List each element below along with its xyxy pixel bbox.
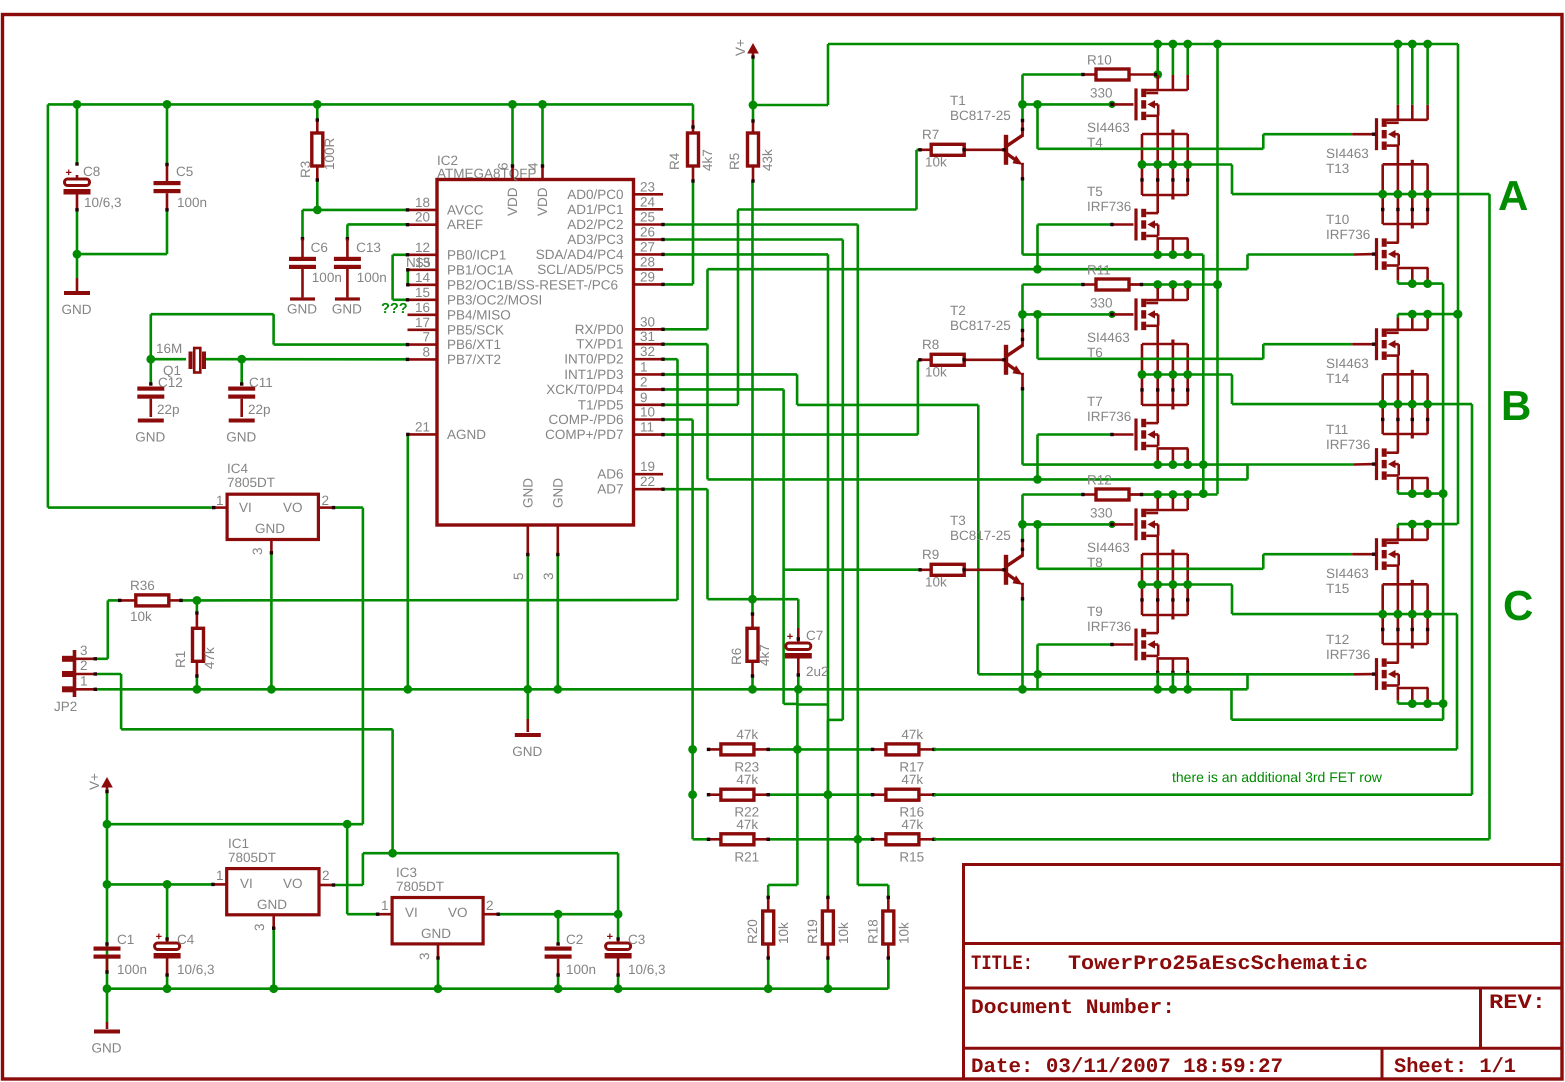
svg-text:C3: C3	[628, 932, 645, 947]
svg-text:4k7: 4k7	[757, 644, 772, 666]
svg-text:SI4463: SI4463	[1326, 566, 1369, 581]
svg-text:C: C	[1503, 582, 1533, 629]
svg-text:18: 18	[415, 195, 430, 210]
svg-text:3: 3	[250, 547, 265, 555]
svg-text:T1/PD5: T1/PD5	[578, 397, 624, 412]
svg-text:R6: R6	[729, 648, 744, 665]
svg-text:GND: GND	[226, 430, 256, 445]
svg-text:T2: T2	[950, 303, 966, 318]
svg-text:IRF736: IRF736	[1326, 227, 1370, 242]
svg-text:16: 16	[415, 300, 430, 315]
svg-text:10k: 10k	[925, 365, 947, 380]
svg-text:AD0/PC0: AD0/PC0	[567, 187, 623, 202]
svg-text:R9: R9	[922, 547, 939, 562]
svg-text:T7: T7	[1087, 394, 1103, 409]
svg-text:22p: 22p	[157, 402, 180, 417]
svg-text:B: B	[1501, 382, 1531, 429]
svg-text:C1: C1	[117, 932, 134, 947]
svg-text:47k: 47k	[901, 727, 923, 742]
svg-text:GND: GND	[255, 521, 285, 536]
svg-text:2u2: 2u2	[806, 664, 829, 679]
svg-text:VI: VI	[405, 905, 418, 920]
svg-text:23: 23	[640, 179, 655, 194]
svg-text:AD2/PC2: AD2/PC2	[567, 217, 623, 232]
svg-text:31: 31	[640, 329, 655, 344]
svg-text:28: 28	[640, 254, 655, 269]
svg-text:2: 2	[640, 374, 648, 389]
svg-text:3: 3	[80, 643, 88, 658]
svg-text:Date: 03/11/2007 18:59:27: Date: 03/11/2007 18:59:27	[971, 1056, 1283, 1079]
svg-text:T15: T15	[1326, 581, 1349, 596]
svg-text:29: 29	[640, 269, 655, 284]
svg-text:4: 4	[526, 162, 541, 170]
svg-text:R21: R21	[734, 849, 759, 864]
svg-text:1: 1	[216, 868, 224, 883]
svg-text:GND: GND	[257, 897, 287, 912]
svg-text:24: 24	[640, 194, 656, 209]
svg-text:C6: C6	[311, 240, 328, 255]
svg-text:R7: R7	[922, 127, 939, 142]
svg-text:10: 10	[640, 405, 655, 420]
svg-text:IRF736: IRF736	[1087, 619, 1131, 634]
svg-text:JP2: JP2	[54, 699, 77, 714]
svg-text:ATMEGA8TQFP: ATMEGA8TQFP	[437, 166, 537, 181]
svg-text:100n: 100n	[177, 195, 207, 210]
svg-text:T12: T12	[1326, 632, 1349, 647]
svg-text:AD6: AD6	[597, 467, 623, 482]
svg-text:PB4/MISO: PB4/MISO	[447, 307, 511, 322]
svg-text:47k: 47k	[736, 727, 758, 742]
svg-text:T11: T11	[1326, 422, 1348, 437]
svg-text:XCK/T0/PD4: XCK/T0/PD4	[546, 382, 624, 397]
svg-text:PB5/SCK: PB5/SCK	[447, 322, 504, 337]
svg-text:C5: C5	[176, 164, 193, 179]
svg-text:R15: R15	[899, 849, 924, 864]
svg-text:2: 2	[322, 493, 330, 508]
svg-text:2: 2	[486, 898, 494, 913]
svg-text:330: 330	[1090, 296, 1113, 311]
svg-text:17: 17	[415, 315, 430, 330]
svg-text:+: +	[787, 631, 793, 643]
svg-text:PB0/ICP1: PB0/ICP1	[447, 247, 506, 262]
svg-text:30: 30	[640, 314, 655, 329]
svg-text:7: 7	[422, 330, 430, 345]
svg-text:T1: T1	[950, 93, 966, 108]
svg-text:C11: C11	[249, 375, 273, 390]
svg-text:R10: R10	[1087, 53, 1112, 68]
svg-text:C8: C8	[83, 164, 100, 179]
svg-text:R18: R18	[865, 919, 880, 944]
svg-text:100n: 100n	[357, 270, 387, 285]
svg-text:27: 27	[640, 239, 655, 254]
svg-text:SI4463: SI4463	[1087, 120, 1130, 135]
svg-text:7805DT: 7805DT	[228, 850, 276, 865]
svg-text:T13: T13	[1326, 161, 1349, 176]
svg-text:7805DT: 7805DT	[396, 879, 444, 894]
svg-text:TowerPro25aEscSchematic: TowerPro25aEscSchematic	[1068, 953, 1368, 976]
svg-text:C7: C7	[806, 628, 823, 643]
svg-text:R11: R11	[1087, 263, 1111, 278]
svg-text:VDD: VDD	[535, 187, 550, 216]
svg-text:GND: GND	[62, 302, 92, 317]
svg-text:+: +	[607, 931, 613, 943]
svg-text:12: 12	[415, 240, 430, 255]
svg-text:9: 9	[640, 390, 648, 405]
svg-text:19: 19	[640, 459, 655, 474]
svg-text:R19: R19	[805, 919, 820, 944]
svg-text:SI4463: SI4463	[1326, 356, 1369, 371]
svg-text:R20: R20	[745, 919, 760, 944]
svg-text:AD3/PC3: AD3/PC3	[567, 232, 623, 247]
svg-text:10k: 10k	[925, 575, 947, 590]
svg-text:VO: VO	[448, 905, 468, 920]
svg-text:VDD: VDD	[505, 187, 520, 216]
svg-text:AVCC: AVCC	[447, 202, 484, 217]
svg-text:R4: R4	[667, 152, 682, 170]
svg-text:1: 1	[640, 359, 648, 374]
svg-text:100R: 100R	[322, 137, 337, 170]
svg-text:V+: V+	[87, 773, 102, 790]
svg-text:TX/PD1: TX/PD1	[576, 337, 623, 352]
svg-text:SI4463: SI4463	[1087, 540, 1130, 555]
svg-text:7805DT: 7805DT	[227, 475, 275, 490]
svg-text:3: 3	[417, 952, 432, 960]
svg-text:SI4463: SI4463	[1087, 330, 1130, 345]
svg-text:GND: GND	[550, 478, 565, 508]
svg-text:T10: T10	[1326, 212, 1349, 227]
svg-text:25: 25	[640, 210, 655, 225]
svg-text:A: A	[1498, 172, 1528, 219]
svg-text:11: 11	[640, 420, 654, 435]
svg-text:1: 1	[381, 898, 389, 913]
svg-text:RX/PD0: RX/PD0	[575, 322, 624, 337]
svg-text:100n: 100n	[117, 962, 147, 977]
svg-text:AD7: AD7	[597, 482, 623, 497]
svg-text:VO: VO	[283, 876, 303, 891]
svg-text:43k: 43k	[760, 149, 775, 171]
svg-text:AREF: AREF	[447, 217, 483, 232]
svg-text:47k: 47k	[202, 647, 217, 669]
svg-text:PB1/OC1A: PB1/OC1A	[447, 262, 513, 277]
svg-text:10k: 10k	[925, 155, 947, 170]
svg-text:COMP-/PD6: COMP-/PD6	[548, 412, 623, 427]
svg-text:21: 21	[415, 419, 430, 434]
svg-text:+: +	[66, 167, 72, 179]
svg-text:10/6,3: 10/6,3	[177, 962, 215, 977]
svg-text:330: 330	[1090, 86, 1113, 101]
svg-text:V+: V+	[733, 39, 748, 56]
svg-text:26: 26	[640, 225, 655, 240]
svg-text:22: 22	[640, 474, 655, 489]
svg-text:2: 2	[80, 658, 88, 673]
svg-text:47k: 47k	[736, 772, 758, 787]
svg-text:R3: R3	[298, 161, 313, 178]
svg-text:GND: GND	[332, 301, 362, 316]
svg-text:R8: R8	[922, 337, 939, 352]
svg-text:5: 5	[511, 572, 526, 580]
svg-text:3: 3	[252, 923, 267, 931]
svg-text:22p: 22p	[248, 402, 271, 417]
svg-text:T14: T14	[1326, 371, 1350, 386]
svg-text:COMP+/PD7: COMP+/PD7	[545, 427, 623, 442]
svg-text:IRF736: IRF736	[1326, 437, 1370, 452]
svg-text:100n: 100n	[566, 962, 596, 977]
svg-text:+: +	[156, 931, 162, 943]
svg-text:IRF736: IRF736	[1326, 647, 1370, 662]
svg-text:47k: 47k	[901, 817, 923, 832]
svg-text:330: 330	[1090, 506, 1113, 521]
svg-text:3: 3	[541, 572, 556, 580]
svg-text:PB2/OC1B/SS-RESET-/PC6: PB2/OC1B/SS-RESET-/PC6	[447, 277, 618, 292]
svg-text:R5: R5	[727, 153, 742, 170]
svg-text:T9: T9	[1087, 604, 1103, 619]
svg-text:SDA/AD4/PC4: SDA/AD4/PC4	[536, 247, 624, 262]
svg-text:IC3: IC3	[396, 865, 417, 880]
svg-text:10/6,3: 10/6,3	[628, 962, 666, 977]
svg-text:15: 15	[415, 285, 430, 300]
svg-text:PB6/XT1: PB6/XT1	[447, 337, 501, 352]
svg-text:SI4463: SI4463	[1326, 146, 1369, 161]
svg-text:10k: 10k	[836, 922, 851, 944]
svg-text:8: 8	[422, 344, 430, 359]
svg-text:SCL/AD5/PC5: SCL/AD5/PC5	[537, 262, 623, 277]
svg-text:VI: VI	[239, 500, 252, 515]
svg-text:GND: GND	[135, 430, 165, 445]
svg-text:N$5: N$5	[406, 255, 431, 270]
svg-text:47k: 47k	[736, 817, 758, 832]
svg-text:16M: 16M	[156, 341, 182, 356]
svg-text:C13: C13	[356, 240, 381, 255]
svg-text:T5: T5	[1087, 184, 1103, 199]
svg-text:14: 14	[415, 270, 431, 285]
svg-text:GND: GND	[92, 1041, 122, 1056]
svg-text:IC1: IC1	[228, 836, 249, 851]
svg-text:Document Number:: Document Number:	[971, 997, 1175, 1020]
svg-text:1: 1	[216, 493, 224, 508]
svg-text:47k: 47k	[901, 772, 923, 787]
svg-text:R12: R12	[1087, 473, 1112, 488]
svg-text:4k7: 4k7	[700, 149, 715, 171]
svg-text:GND: GND	[512, 744, 542, 759]
svg-text:R36: R36	[130, 578, 155, 593]
svg-text:10k: 10k	[130, 609, 152, 624]
svg-text:???: ???	[381, 301, 408, 317]
svg-text:1: 1	[80, 673, 88, 688]
svg-text:BC817-25: BC817-25	[950, 528, 1011, 543]
svg-text:100n: 100n	[312, 270, 342, 285]
svg-text:VI: VI	[240, 876, 253, 891]
svg-text:32: 32	[640, 344, 655, 359]
svg-text:C2: C2	[566, 932, 583, 947]
svg-text:C4: C4	[177, 932, 195, 947]
svg-text:Sheet: 1/1: Sheet: 1/1	[1394, 1056, 1516, 1079]
svg-text:10k: 10k	[776, 922, 791, 944]
svg-text:6: 6	[496, 162, 511, 170]
svg-text:T3: T3	[950, 513, 966, 528]
svg-text:IRF736: IRF736	[1087, 409, 1131, 424]
svg-text:10k: 10k	[896, 922, 911, 944]
svg-text:GND: GND	[520, 478, 535, 508]
svg-text:10/6,3: 10/6,3	[84, 195, 122, 210]
svg-text:GND: GND	[287, 301, 317, 316]
svg-text:INT0/PD2: INT0/PD2	[564, 352, 623, 367]
svg-text:20: 20	[415, 210, 430, 225]
svg-text:BC817-25: BC817-25	[950, 108, 1011, 123]
svg-text:AGND: AGND	[447, 427, 486, 442]
svg-text:AD1/PC1: AD1/PC1	[567, 202, 623, 217]
svg-text:GND: GND	[421, 926, 451, 941]
svg-text:PB7/XT2: PB7/XT2	[447, 352, 501, 367]
svg-text:R1: R1	[173, 651, 188, 668]
svg-text:IC4: IC4	[227, 461, 249, 476]
svg-text:INT1/PD3: INT1/PD3	[564, 367, 623, 382]
svg-text:there is an additional 3rd FET: there is an additional 3rd FET row	[1172, 769, 1383, 785]
svg-text:REV:: REV:	[1489, 992, 1546, 1015]
svg-text:VO: VO	[283, 500, 303, 515]
svg-text:IRF736: IRF736	[1087, 199, 1131, 214]
svg-text:TITLE:: TITLE:	[971, 953, 1033, 976]
svg-text:PB3/OC2/MOSI: PB3/OC2/MOSI	[447, 292, 542, 307]
svg-text:2: 2	[322, 868, 330, 883]
svg-text:C12: C12	[158, 375, 183, 390]
svg-text:BC817-25: BC817-25	[950, 318, 1011, 333]
